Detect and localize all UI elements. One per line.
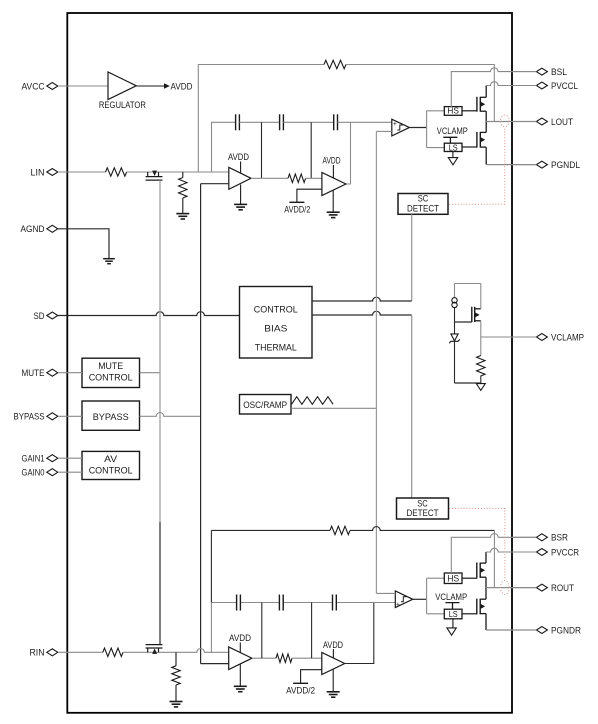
- ground below LIN shunt: [176, 214, 189, 219]
- transistor mute switch left: [146, 171, 163, 181]
- wire mute gate rail: [159, 180, 161, 522]
- waveform ramp symbol: [292, 397, 334, 405]
- resistor RIN input: [103, 648, 123, 656]
- ground below RIN shunt: [170, 702, 183, 707]
- pin BSL: [512, 67, 567, 77]
- wire SC DETECT to control logic: [411, 214, 413, 301]
- ground op-amp U2: [234, 204, 247, 209]
- svg-text:HS: HS: [447, 107, 459, 116]
- wire integrator cap rail left vertical: [212, 122, 236, 172]
- op-amp U5 right channel first integrator: [229, 647, 252, 670]
- resistor LIN shunt to ground: [179, 172, 187, 213]
- pin PGNDL: [512, 160, 580, 170]
- svg-text:PVCCR: PVCCR: [551, 547, 579, 557]
- svg-text:GAIN1: GAIN1: [22, 454, 45, 464]
- wire GAIN1 to block: [58, 457, 82, 459]
- block SC DETECT right channel: [397, 498, 449, 519]
- capacitor C1 left channel: [236, 114, 240, 130]
- hysteresis symbol U4: [397, 125, 402, 130]
- resistor LIN input: [106, 168, 127, 176]
- svg-text:SD: SD: [34, 311, 45, 321]
- wire mute control output: [140, 372, 161, 374]
- wire feedback left vertical: [210, 530, 212, 602]
- pin BSR: [512, 533, 568, 543]
- resistor feedback right channel: [330, 526, 350, 534]
- wire BSR with hop over feedback: [451, 534, 536, 574]
- block LS driver left channel: [444, 143, 462, 151]
- pin AVCC: [22, 81, 58, 91]
- wire PGNDL: [486, 164, 536, 166]
- wire gate-driver input tee bottom: [427, 578, 445, 614]
- capacitor VCLAMP left channel: [443, 137, 457, 143]
- svg-text:GAIN0: GAIN0: [22, 468, 45, 478]
- svg-text:ROUT: ROUT: [551, 583, 574, 593]
- pin SD: [34, 311, 58, 321]
- wire SD input with hops: [58, 312, 240, 316]
- wire gate of clamp fet: [455, 321, 472, 323]
- wire Q1 drain to PVCCL: [485, 86, 487, 98]
- wire integrator cap rail bottom: [211, 602, 395, 604]
- wire LOUT: [486, 121, 536, 123]
- pin BYPASS: [14, 412, 58, 422]
- wire feedback top right segment down to LOUT node: [346, 65, 494, 122]
- svg-text:VCLAMP: VCLAMP: [437, 126, 468, 136]
- regulator U1: [108, 72, 136, 100]
- pin ROUT: [512, 583, 574, 593]
- wire cap dropper 2: [310, 122, 312, 178]
- resistor RIN shunt: [172, 652, 180, 701]
- wire bypass reference rail: [200, 184, 202, 664]
- wire RIN input: [58, 651, 103, 653]
- wire regulator output: [136, 85, 164, 87]
- wire cap rail segment 4 to comparator: [338, 121, 392, 123]
- capacitor C6 right channel: [333, 595, 337, 611]
- wire U5 output: [252, 657, 276, 659]
- svg-text:LIN: LIN: [31, 167, 45, 177]
- svg-text:+: +: [393, 121, 397, 128]
- svg-text:BSR: BSR: [551, 533, 568, 543]
- resistor between integrators right: [276, 654, 292, 662]
- comparator U4 left channel: [392, 119, 410, 136]
- wire Q2 source to PGNDL: [485, 147, 487, 165]
- ground op-amp U5: [234, 686, 247, 691]
- wire gate-driver input tee: [427, 111, 445, 148]
- svg-text:SC: SC: [418, 194, 429, 204]
- wire oscillator output: [291, 407, 376, 409]
- svg-text:DETECT: DETECT: [407, 508, 440, 518]
- wire U2 ground stub: [240, 185, 242, 205]
- hysteresis symbol U7: [401, 597, 406, 602]
- wire ramp to U4 inverting input: [376, 130, 391, 132]
- svg-text:AVDD: AVDD: [323, 640, 343, 650]
- wire RIN after resistor with hop: [123, 649, 229, 653]
- wire ROUT: [486, 587, 536, 589]
- wire cap rail segment 2: [239, 121, 279, 123]
- svg-text:BIAS: BIAS: [264, 323, 287, 333]
- wire Q3 drain to PVCCR: [485, 552, 487, 563]
- wire U2 output: [251, 177, 288, 179]
- wire resistor to bottom rail: [480, 376, 482, 384]
- wire U3 noninverting input to AVDD/2: [297, 189, 322, 202]
- wire U5 ground stub: [239, 665, 241, 687]
- svg-text:PVCCL: PVCCL: [551, 81, 578, 91]
- transistor Q1 high-side left: [477, 97, 486, 112]
- pin LOUT: [512, 117, 573, 127]
- transistor Q3 high-side right: [477, 563, 486, 578]
- wire ramp to U7 input: [376, 592, 395, 594]
- block MUTE CONTROL: [82, 358, 140, 387]
- svg-text:AVDD/2: AVDD/2: [286, 685, 315, 695]
- svg-text:PGNDL: PGNDL: [551, 160, 580, 170]
- svg-text:+: +: [396, 602, 400, 609]
- ground triangle VCLAMP: [476, 384, 485, 391]
- block BYPASS: [82, 401, 140, 430]
- svg-text:OSC/RAMP: OSC/RAMP: [243, 400, 287, 410]
- svg-text:CONTROL: CONTROL: [254, 304, 298, 314]
- ground AGND: [103, 259, 115, 264]
- current source VCLAMP bias: [452, 284, 457, 308]
- svg-text:LS: LS: [449, 610, 458, 619]
- resistor VCLAMP load: [477, 356, 485, 377]
- capacitor C4 right channel: [237, 595, 241, 611]
- node AVDD (arrow): [164, 83, 170, 89]
- wire control to SC detect bottom with hop: [312, 311, 412, 315]
- wire cap dropper 3: [261, 603, 263, 659]
- svg-text:BYPASS: BYPASS: [14, 412, 45, 422]
- wire cap dropper 4: [311, 603, 313, 659]
- svg-text:MUTE: MUTE: [98, 361, 123, 371]
- block SC DETECT left channel: [398, 194, 448, 215]
- pin LIN: [31, 167, 58, 177]
- block HS driver right channel: [444, 573, 462, 584]
- capacitor C3 left channel: [334, 114, 338, 130]
- wire zener to bottom rail: [454, 341, 456, 383]
- node AVDD/2 right channel: [293, 682, 308, 684]
- wire control to SC detect top with hop: [312, 297, 412, 301]
- svg-text:AVDD/2: AVDD/2: [284, 204, 310, 214]
- svg-text:THERMAL: THERMAL: [255, 343, 297, 353]
- svg-text:HS: HS: [447, 573, 459, 583]
- capacitor C5 right channel: [279, 595, 283, 611]
- svg-text:AVDD: AVDD: [171, 81, 193, 91]
- pin PGNDR: [512, 625, 581, 635]
- wire GAIN0 to block: [58, 471, 82, 473]
- svg-text:BYPASS: BYPASS: [93, 412, 129, 422]
- svg-text:MUTE: MUTE: [22, 368, 45, 378]
- wire U7 output: [413, 598, 427, 600]
- block CONTROL BIAS THERMAL: [240, 287, 313, 359]
- svg-text:CONTROL: CONTROL: [89, 372, 133, 382]
- wire U6 noninverting input to AVDD/2: [301, 670, 322, 683]
- IC boundary box: [67, 13, 512, 713]
- svg-text:BSL: BSL: [551, 67, 567, 77]
- wire ramp rail: [375, 131, 377, 593]
- block OSC/RAMP: [240, 395, 292, 415]
- pin AGND: [21, 224, 58, 234]
- svg-text:AGND: AGND: [21, 224, 45, 234]
- wire PGNDR: [486, 629, 536, 631]
- pin PVCCR: [512, 547, 579, 557]
- wire resistor to opamp6: [292, 657, 322, 659]
- wire feedback top left segment: [198, 65, 324, 173]
- wire bypass output with hop: [140, 413, 201, 417]
- pin GAIN1: [22, 454, 58, 464]
- svg-text:AV: AV: [104, 454, 118, 464]
- wire U6 ground stub: [332, 670, 334, 692]
- pin VCLAMP: [512, 332, 584, 342]
- wire Q4 source to PGNDR: [485, 614, 487, 630]
- block HS driver left channel: [444, 107, 462, 116]
- wire U4 output: [409, 127, 426, 129]
- pin GAIN0: [22, 468, 58, 478]
- transistor Q4 low-side right: [477, 599, 486, 615]
- wire AVDD stub U6: [332, 649, 334, 658]
- svg-text:LS: LS: [449, 143, 458, 152]
- wire AVDD stub U5: [239, 643, 241, 653]
- svg-text:SC: SC: [417, 498, 428, 508]
- wire AVDD stub U3: [332, 165, 334, 178]
- resistor feedback left channel: [324, 60, 346, 68]
- wire AVDD stub U2: [240, 162, 242, 173]
- block LS driver right channel: [444, 609, 462, 619]
- wire opamp2 output up to cap rail: [346, 122, 351, 184]
- zener diode VCLAMP: [449, 334, 460, 343]
- wire PVCCL with hop over feedback: [486, 82, 536, 86]
- op-amp U3 left channel second integrator: [322, 173, 346, 196]
- svg-text:DETECT: DETECT: [407, 203, 440, 213]
- wire VCLAMP top rail: [455, 283, 481, 285]
- svg-text:CONTROL: CONTROL: [89, 466, 133, 476]
- svg-text:PGNDR: PGNDR: [551, 625, 581, 635]
- wire MUTE pin to block: [58, 372, 82, 374]
- wire AVCC to regulator: [58, 85, 108, 87]
- wire half-bridge midpoint right: [485, 577, 487, 599]
- wire PVCCR with hop over feedback: [486, 548, 536, 552]
- wire U2 noninverting input from bypass rail: [201, 183, 229, 185]
- wire LS to gate: [462, 146, 477, 148]
- block AV CONTROL: [82, 451, 140, 479]
- wire SC sense dotted left channel: [449, 127, 505, 204]
- wire BYPASS pin to block: [58, 415, 82, 417]
- wire U5 noninverting input from bypass rail: [201, 663, 229, 665]
- wire LIN after resistor: [127, 171, 229, 173]
- pin RIN: [30, 648, 58, 658]
- wire clamp fet drain: [480, 284, 482, 309]
- wire SC sense dotted right channel: [449, 509, 505, 581]
- svg-text:VCLAMP: VCLAMP: [435, 592, 467, 602]
- wire AGND: [58, 229, 109, 259]
- comparator U7 right channel: [395, 591, 413, 608]
- svg-text:AVDD: AVDD: [228, 152, 249, 162]
- wire current source to zener node: [454, 308, 456, 334]
- wire feedback down to ROUT with hops: [493, 530, 495, 587]
- wire U3 ground stub: [332, 190, 334, 212]
- wire cap rail segment 3: [283, 121, 333, 123]
- wire BSL with hop over feedback: [451, 68, 536, 107]
- wire resistor to opamp3: [306, 177, 322, 179]
- svg-text:RIN: RIN: [30, 648, 45, 658]
- pin MUTE: [22, 368, 58, 378]
- wire VCLAMP bottom rail: [455, 382, 481, 384]
- capacitor VCLAMP right channel: [445, 603, 459, 610]
- wire U6 output up to cap rail: [345, 603, 374, 664]
- wire cap dropper 1: [261, 122, 263, 178]
- ground op-amp U6: [327, 692, 340, 697]
- wire feedback bottom with hop: [211, 527, 494, 531]
- node AVDD/2 left channel: [289, 201, 304, 203]
- transistor Q2 low-side left: [477, 132, 486, 148]
- svg-text:AVCC: AVCC: [22, 81, 45, 91]
- transistor Q5 vclamp follower: [472, 307, 481, 322]
- wire LIN input: [58, 171, 106, 173]
- pin PVCCL: [512, 81, 578, 91]
- transistor mute switch right: [146, 645, 163, 654]
- resistor between integrators left: [288, 174, 306, 182]
- op-amp U6 right channel second integrator: [322, 652, 345, 674]
- svg-text:LOUT: LOUT: [551, 117, 573, 127]
- svg-text:AVDD: AVDD: [229, 633, 251, 643]
- wire HS to gate bottom: [462, 577, 477, 579]
- ground triangle below LS right: [447, 619, 456, 635]
- svg-text:REGULATOR: REGULATOR: [99, 100, 146, 110]
- ground op-amp U3: [327, 212, 340, 217]
- wire clamp fet source to output node: [480, 321, 482, 356]
- node sense ellipse LOUT: [500, 115, 509, 127]
- op-amp U2 left channel first integrator: [229, 167, 251, 189]
- capacitor C2 left channel: [280, 114, 284, 130]
- svg-text:VCLAMP: VCLAMP: [551, 332, 584, 342]
- wire control link down to lower SC detect: [411, 315, 413, 498]
- wire VCLAMP output: [481, 336, 537, 338]
- svg-text:AVDD: AVDD: [323, 156, 341, 166]
- wire half-bridge midpoint left: [485, 111, 487, 132]
- ground triangle below LS left: [448, 152, 457, 165]
- wire HS to gate: [462, 110, 477, 112]
- node sense ellipse ROUT: [501, 581, 510, 595]
- wire LS to gate bottom: [462, 613, 477, 615]
